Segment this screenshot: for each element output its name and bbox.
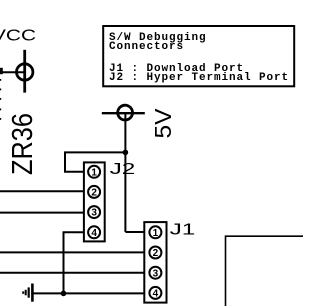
note box S/W Debugging Connectors xyxy=(103,26,294,86)
power symbol 5V xyxy=(102,105,176,138)
pin 2 of J1 xyxy=(149,247,161,260)
pin 1 of J2 xyxy=(88,166,100,179)
svg-text:4: 4 xyxy=(91,228,97,239)
pin 1 of J1 xyxy=(149,226,161,239)
pin 3 of J1 xyxy=(149,267,161,280)
svg-text:J1: J1 xyxy=(170,222,196,239)
wire to J2 pin2 xyxy=(0,190,84,192)
wire 5V vertical drop xyxy=(124,113,126,232)
svg-text:ZR36: ZR36 xyxy=(7,113,39,175)
svg-text:3: 3 xyxy=(91,208,97,219)
edge pin stubs xyxy=(0,79,1,120)
pin 4 of J1 xyxy=(149,287,161,300)
svg-text:2: 2 xyxy=(153,248,159,259)
ground xyxy=(23,284,32,302)
pin 4 of J2 xyxy=(88,226,100,239)
wire ground to J1 pin4 xyxy=(32,292,144,294)
power symbol VCC xyxy=(0,28,36,93)
block outline (partial box, bottom right) xyxy=(226,236,304,306)
wire VCC net xyxy=(0,68,25,74)
svg-text:J2 : Hyper Terminal Port: J2 : Hyper Terminal Port xyxy=(109,72,289,84)
svg-text:1: 1 xyxy=(91,167,97,178)
svg-text:VCC: VCC xyxy=(0,28,36,45)
wire to J1 pin3 xyxy=(0,272,144,274)
wire to J1 pin1 xyxy=(125,231,144,233)
svg-text:3: 3 xyxy=(153,268,159,279)
svg-text:5V: 5V xyxy=(150,108,176,139)
junction 5V branch xyxy=(123,150,129,156)
connector J1 xyxy=(144,222,195,303)
connector J2 xyxy=(84,161,135,242)
wire to J1 pin2 xyxy=(0,251,144,253)
svg-text:J2: J2 xyxy=(110,161,136,178)
wire branch to J2 pin1 xyxy=(65,152,125,171)
svg-text:1: 1 xyxy=(153,228,159,239)
pin 2 of J2 xyxy=(88,186,100,199)
wire to J2 pin3 xyxy=(0,212,84,214)
svg-text:4: 4 xyxy=(153,289,159,300)
svg-text:2: 2 xyxy=(91,188,97,199)
pin 3 of J2 xyxy=(88,206,100,219)
svg-text:Connectors: Connectors xyxy=(109,41,184,53)
junction ground net xyxy=(61,291,67,297)
wire J2 pin4 to ground net xyxy=(64,232,84,293)
